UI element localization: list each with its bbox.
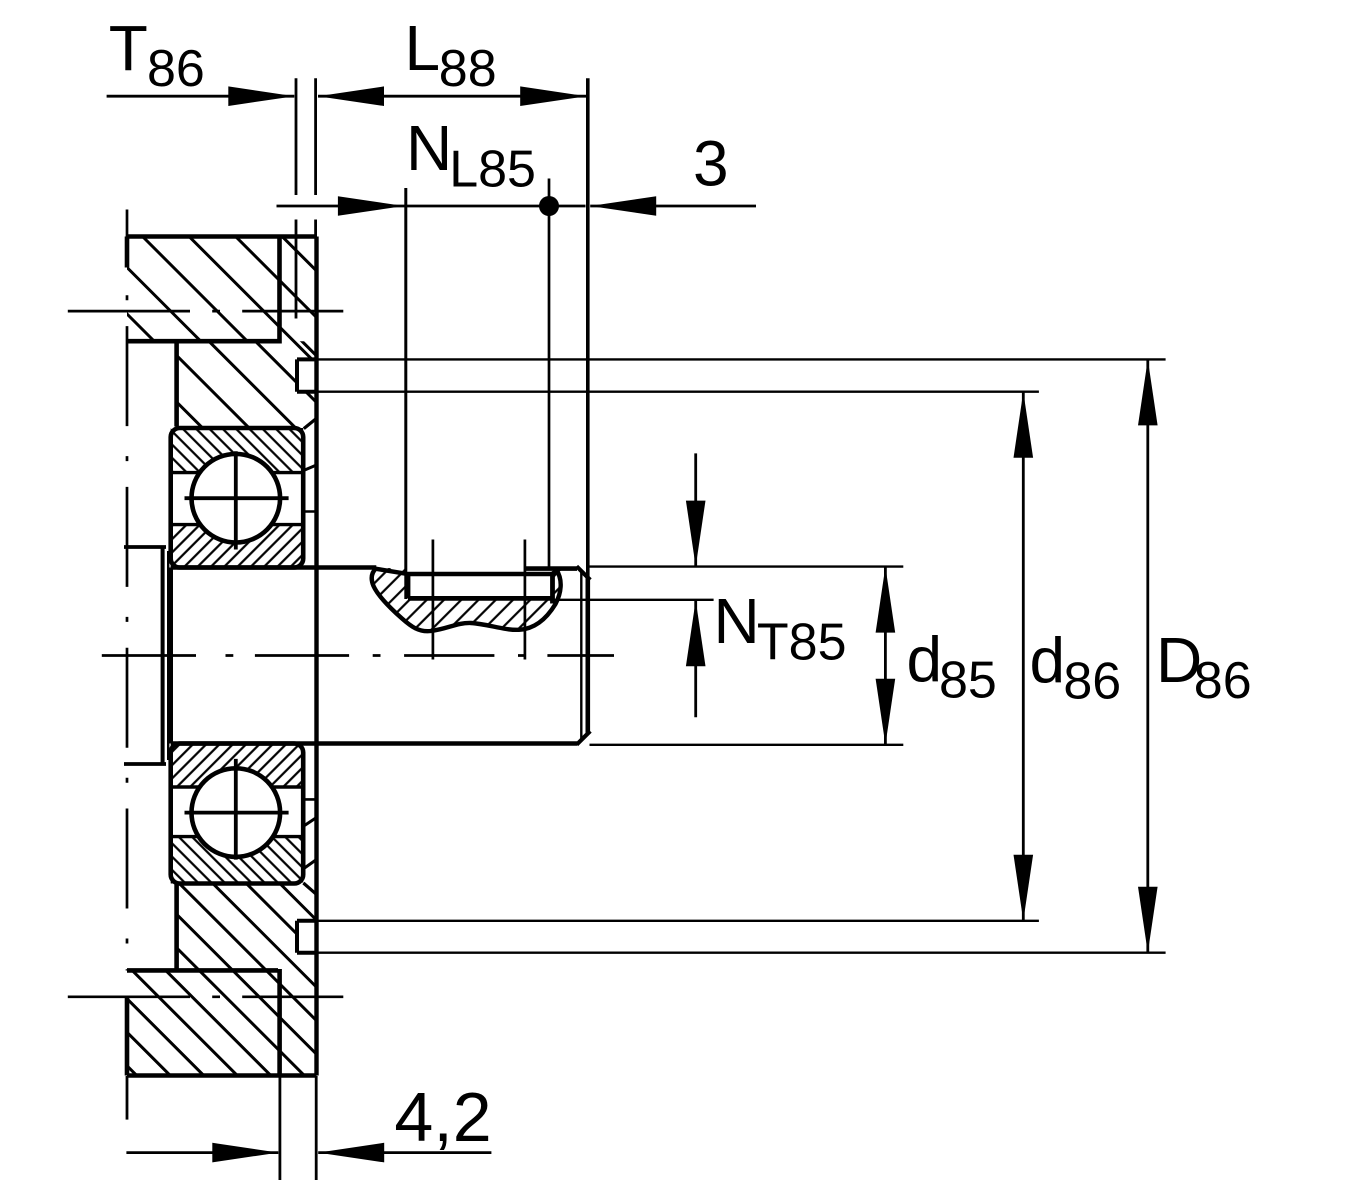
svg-text:86: 86 — [1063, 652, 1121, 710]
svg-text:N: N — [714, 585, 760, 657]
svg-text:85: 85 — [939, 652, 997, 710]
svg-text:d: d — [1030, 624, 1066, 696]
svg-text:88: 88 — [439, 40, 497, 98]
svg-text:86: 86 — [147, 40, 205, 98]
svg-text:86: 86 — [1194, 652, 1252, 710]
svg-text:L85: L85 — [449, 140, 536, 198]
svg-text:3: 3 — [693, 127, 729, 199]
svg-text:T: T — [109, 12, 148, 84]
svg-text:L: L — [405, 12, 441, 84]
svg-text:4,2: 4,2 — [394, 1078, 491, 1156]
svg-text:d: d — [907, 624, 943, 696]
svg-text:T85: T85 — [757, 614, 847, 672]
svg-text:N: N — [406, 112, 452, 184]
